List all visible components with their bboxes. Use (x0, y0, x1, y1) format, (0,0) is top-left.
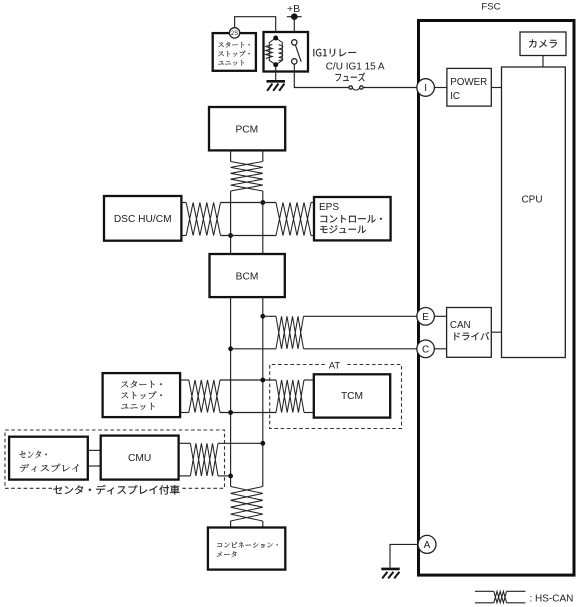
wire bus to DSC lower (221, 235, 277, 237)
bus wire CAN-H upper (262, 191, 264, 254)
svg-text:PCM: PCM (235, 124, 258, 135)
svg-text:CAN: CAN (450, 320, 471, 331)
BCM box (210, 254, 285, 297)
POWER IC box U1 (447, 68, 491, 106)
CAN driver box U3 (447, 308, 492, 358)
wire camera to CPU (542, 56, 544, 68)
DSC HU/CM box (104, 196, 181, 241)
junction dot H/ss-pair (260, 378, 265, 383)
bus wire CAN-L lower (230, 297, 232, 486)
svg-text:EPS: EPS (319, 202, 339, 213)
label IG1 relay (313, 49, 356, 57)
start-stop unit label line1 (218, 42, 250, 48)
twisted pair FSC feed (276, 316, 304, 349)
wire EPS stub upper (311, 202, 314, 204)
CMU box (101, 436, 179, 480)
junction dot L/ss-pair (228, 410, 233, 415)
wire DSC pair lower (181, 235, 186, 237)
wire TCM stub upper (304, 379, 314, 381)
ground at FSC pin A (381, 569, 399, 579)
wire twist to meter (right) (262, 521, 264, 528)
connector circle 2S (229, 28, 239, 38)
svg-text:CMU: CMU (128, 453, 151, 464)
svg-text:E: E (422, 312, 429, 323)
svg-text:IC: IC (450, 91, 460, 102)
wire DSC pair upper (181, 202, 186, 204)
camera box (520, 32, 566, 56)
wire CMU upper (179, 442, 191, 444)
bus wire CAN-H lower (262, 297, 264, 486)
combination meter box (208, 528, 285, 570)
bus wire CAN-L upper (230, 191, 232, 254)
wire bus to E twist (263, 315, 276, 317)
center display box (9, 437, 88, 480)
wire pin I to POWER IC (434, 87, 447, 89)
junction dot H/DSC (260, 200, 265, 205)
twisted pair EPS (276, 203, 311, 236)
wire pin E to CAN driver (434, 315, 446, 317)
svg-text:I: I (424, 83, 427, 94)
wire PCM to twist (right) (262, 150, 264, 161)
pin I connector circle (417, 79, 435, 97)
junction dot L/CMU (228, 474, 233, 479)
relay switch contacts (292, 40, 302, 64)
svg-text:A: A (424, 540, 431, 551)
pin E connector circle (417, 308, 435, 326)
wire twist to meter (left) (230, 521, 232, 528)
ground under relay coil (267, 81, 286, 91)
CPU box U2 (502, 67, 566, 358)
relay coil (266, 36, 283, 68)
wire twist to pin C (304, 348, 417, 350)
svg-text:FSC: FSC (481, 1, 500, 12)
legend twisted-pair symbol (475, 591, 526, 603)
wire pin C to CAN driver (434, 348, 446, 350)
EPS control module box (314, 197, 391, 240)
svg-text:C/U IG1 15 A: C/U IG1 15 A (326, 62, 385, 73)
junction dot H/E-pair (260, 314, 265, 319)
wire start-stop upper (180, 379, 189, 381)
TCM box (314, 374, 390, 417)
wire EPS stub lower (311, 235, 314, 237)
svg-text:DSC HU/CM: DSC HU/CM (114, 214, 172, 225)
wire pin A to ground (390, 544, 418, 567)
wire twist to pin E (304, 315, 417, 317)
twisted pair TCM (276, 380, 304, 413)
twisted pair meter drop (231, 487, 263, 522)
twisted pair PCM drop (231, 162, 263, 192)
wire PCM to twist (left) (230, 150, 232, 161)
junction dot H/CMU (260, 441, 265, 446)
svg-text:POWER: POWER (450, 77, 487, 88)
wire bus lower (start-stop to TCM) (220, 412, 276, 414)
label center-display-equipped vehicles (53, 485, 179, 495)
wire CMU lower (179, 475, 191, 477)
junction dot L/C-pair (228, 346, 233, 351)
junction dot L/DSC (228, 233, 233, 238)
wire display-CMU upper (88, 449, 101, 451)
svg-text:+B: +B (287, 3, 300, 15)
wire switch to fuse (294, 64, 349, 87)
wire CAN driver to CPU (491, 331, 501, 333)
fuse C/U IG1 15A (349, 86, 363, 90)
start-stop unit box (bottom) (103, 373, 181, 417)
AT dashed group box (270, 365, 402, 429)
wire bus to DSC upper (221, 202, 277, 204)
wire node 2S to relay coil (235, 17, 276, 36)
svg-text:BCM: BCM (236, 272, 259, 283)
wire CMU pair to H bus (218, 442, 263, 444)
node +B tap: tick and junction dot (287, 13, 302, 20)
wire TCM stub lower (304, 412, 314, 414)
wire fuse to pin I (363, 87, 417, 89)
PCM box (209, 107, 285, 150)
start-stop unit box (top) (213, 33, 256, 71)
start-stop unit label line3 (218, 60, 244, 66)
wire CMU pair to L bus (218, 475, 231, 477)
relay K1 box (264, 32, 309, 72)
wire display-CMU lower (88, 465, 101, 467)
wire POWER IC to CPU (491, 87, 501, 89)
svg-text:2S: 2S (231, 31, 238, 37)
svg-text:C: C (422, 345, 429, 356)
wire start-stop lower (180, 412, 189, 414)
twisted pair DSC (186, 203, 220, 236)
pin C connector circle (417, 340, 435, 358)
wire coil to ground (275, 67, 277, 81)
FSC unit box (419, 21, 575, 576)
twisted pair CMU (190, 443, 218, 476)
label fuse (335, 73, 365, 82)
twisted pair start-stop (189, 380, 220, 413)
pin A connector circle (418, 535, 436, 553)
center display dashed group box (5, 430, 225, 488)
wire bus to C twist (231, 348, 276, 350)
svg-text:TCM: TCM (341, 391, 363, 402)
wire bus upper (start-stop to TCM) (220, 379, 276, 381)
wire +B down to relay switch (293, 17, 295, 40)
svg-text:AT: AT (329, 360, 341, 371)
svg-text:: HS-CAN: : HS-CAN (530, 594, 574, 605)
svg-text:CPU: CPU (521, 195, 542, 206)
start-stop unit label line2 (218, 51, 250, 57)
